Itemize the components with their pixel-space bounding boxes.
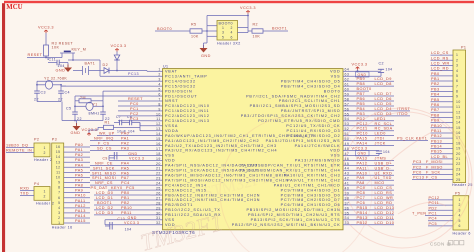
svg-text:15: 15	[156, 137, 161, 141]
svg-text:PC13: PC13	[128, 72, 139, 76]
svg-text:U1: U1	[163, 65, 169, 69]
svg-text:PB6: PB6	[357, 97, 366, 101]
capacitor C4	[58, 90, 64, 92]
svg-text:PC2: PC2	[130, 112, 139, 116]
net wire row 20	[90, 164, 151, 166]
svg-text:PB2: PB2	[121, 201, 130, 205]
svg-text:PA13: PA13	[357, 156, 368, 160]
svg-text:62: 62	[345, 78, 350, 82]
net wire row 24	[90, 184, 151, 186]
svg-text:PA8: PA8	[75, 184, 83, 188]
svg-text:10K: 10K	[52, 46, 60, 50]
svg-text:PA6: PA6	[75, 173, 83, 177]
svg-text:C2: C2	[379, 62, 385, 66]
svg-text:14: 14	[156, 132, 161, 136]
svg-text:/TRST: /TRST	[397, 107, 410, 111]
net wire pin 38	[355, 199, 394, 201]
net label 18B20_DQ	[6, 147, 34, 149]
svg-text:R5: R5	[191, 23, 197, 27]
svg-text:PB4/JNTRST/SPI3_MISO: PB4/JNTRST/SPI3_MISO	[281, 109, 341, 113]
svg-text:VSSA: VSSA	[165, 124, 178, 128]
svg-text:BAT1: BAT1	[85, 62, 96, 66]
svg-text:SPI1_SCK: SPI1_SCK	[93, 166, 115, 170]
net wire pin 61	[355, 85, 394, 87]
svg-text:53: 53	[345, 122, 350, 126]
net wire pin 33	[355, 224, 394, 226]
svg-text:PD2: PD2	[429, 206, 438, 210]
svg-text:22: 22	[58, 98, 63, 102]
net wire pin 42	[355, 179, 394, 181]
svg-text:22: 22	[456, 162, 461, 166]
svg-text:3: 3	[222, 31, 224, 35]
svg-text:PA12: PA12	[75, 204, 86, 208]
svg-text:19: 19	[456, 147, 461, 151]
svg-text:SPI1_MISO: SPI1_MISO	[92, 171, 116, 175]
svg-text:LCD_D9: LCD_D9	[375, 77, 392, 81]
svg-text:PC1/ADC123_IN11: PC1/ADC123_IN11	[165, 109, 209, 113]
svg-text:PA6: PA6	[121, 171, 129, 175]
svg-text:4: 4	[158, 83, 160, 87]
svg-text:PA3: PA3	[121, 147, 129, 151]
svg-text:GND: GND	[128, 152, 137, 156]
svg-text:VBAT: VBAT	[165, 70, 178, 74]
svg-text:PA2: PA2	[75, 153, 83, 157]
svg-text:PB15/SPI2_MOSI/I2S2_SD/TIM1_CH: PB15/SPI2_MOSI/I2S2_SD/TIM1_CH3N	[246, 208, 340, 212]
capacitor C3	[34, 90, 40, 92]
net label GND (pin 47)	[356, 150, 370, 155]
svg-text:PB7/I2C1_SDA/FSMC_NADV/TIM4_CH: PB7/I2C1_SDA/FSMC_NADV/TIM4_CH2	[246, 94, 340, 98]
svg-text:NRF_CS: NRF_CS	[95, 181, 113, 185]
svg-text:NRF_IRQ: NRF_IRQ	[94, 137, 114, 141]
net wire pin 60	[355, 90, 369, 92]
capacitor C9 (decoupling rows 18-19)	[108, 155, 110, 160]
svg-text:PA5: PA5	[121, 166, 129, 170]
svg-text:6: 6	[459, 224, 461, 228]
header P5	[453, 196, 469, 230]
svg-text:24: 24	[156, 182, 161, 186]
svg-text:10: 10	[56, 176, 61, 180]
net label REMOTE_IN	[6, 152, 34, 154]
svg-text:4: 4	[231, 31, 233, 35]
svg-text:14: 14	[456, 121, 461, 125]
sheet border left	[2, 3, 5, 252]
net wire row 28	[94, 204, 151, 206]
svg-text:Header 16: Header 16	[52, 226, 73, 230]
svg-text:1: 1	[222, 26, 224, 30]
svg-text:PA15: PA15	[75, 219, 86, 223]
svg-text:PB11: PB11	[431, 129, 442, 133]
svg-text:C9: C9	[103, 157, 108, 161]
svg-text:PB2/BOOT1: PB2/BOOT1	[165, 203, 193, 207]
net wire pin 51	[355, 135, 394, 137]
svg-text:6: 6	[456, 79, 458, 83]
net wire pin 62	[355, 80, 394, 82]
svg-text:GND: GND	[128, 216, 137, 220]
svg-text:6: 6	[231, 36, 233, 40]
svg-text:BOOT0: BOOT0	[219, 21, 233, 25]
svg-text:PB7: PB7	[431, 108, 440, 112]
svg-text:P5: P5	[455, 192, 460, 196]
svg-text:PB1: PB1	[431, 77, 440, 81]
svg-text:PB15: PB15	[431, 150, 442, 154]
svg-text:PA3: PA3	[75, 158, 83, 162]
svg-text:LCD_RD: LCD_RD	[431, 67, 449, 71]
svg-text:6: 6	[58, 196, 60, 200]
ground (reset)	[67, 63, 69, 68]
svg-text:PC5/ADC12_IN15: PC5/ADC12_IN15	[165, 188, 207, 192]
net label RXD	[20, 190, 34, 192]
svg-text:2: 2	[58, 216, 60, 220]
svg-text:PA1: PA1	[121, 137, 129, 141]
svg-text:PB4: PB4	[431, 93, 440, 97]
svg-text:20: 20	[456, 152, 461, 156]
net wire F_MOSI	[412, 163, 453, 165]
svg-text:PC7: PC7	[357, 196, 366, 200]
svg-text:36: 36	[345, 206, 350, 210]
svg-text:LCD_D5: LCD_D5	[375, 102, 392, 106]
svg-text:VCC3.3: VCC3.3	[129, 157, 144, 161]
svg-text:LCD_D11: LCD_D11	[375, 216, 395, 220]
svg-text:25: 25	[156, 187, 161, 191]
svg-text:29: 29	[156, 206, 161, 210]
wire to PC15 pin 4	[61, 85, 66, 87]
svg-text:PB12/SPI2_NSS/I2S2_WS/TIM1_BKI: PB12/SPI2_NSS/I2S2_WS/TIM1_BKIN/U3_CK	[232, 223, 341, 227]
svg-text:PC3: PC3	[413, 160, 422, 164]
svg-text:9: 9	[456, 95, 458, 99]
net wire pin 46	[355, 159, 394, 161]
svg-text:PB9: PB9	[357, 77, 366, 81]
net wire pin 52	[355, 130, 394, 132]
svg-text:PC11/U4_RX/SDIO_D3: PC11/U4_RX/SDIO_D3	[287, 129, 341, 133]
svg-text:42: 42	[345, 177, 350, 181]
header P4	[34, 187, 50, 201]
svg-text:P1: P1	[461, 46, 466, 50]
svg-text:1: 1	[44, 189, 46, 193]
net label PC0	[118, 105, 151, 107]
svg-text:C4: C4	[65, 91, 71, 95]
svg-text:PC4: PC4	[429, 217, 438, 221]
svg-text:PD1/OSCOUT: PD1/OSCOUT	[165, 94, 197, 98]
svg-text:49: 49	[345, 142, 350, 146]
net wire pin 35	[355, 214, 394, 216]
net wire row 25	[108, 189, 151, 191]
svg-text:104: 104	[58, 64, 65, 68]
svg-text:58: 58	[345, 97, 350, 101]
svg-text:1: 1	[44, 146, 46, 150]
svg-text:PD0/OSCIN: PD0/OSCIN	[165, 89, 193, 93]
svg-text:16: 16	[56, 145, 61, 149]
svg-text:SPI1_MOSI: SPI1_MOSI	[92, 176, 116, 180]
watermark circle	[332, 108, 472, 248]
svg-text:104: 104	[125, 227, 132, 231]
svg-text:C11: C11	[49, 58, 57, 62]
net label PC3	[118, 120, 151, 122]
svg-text:PC1: PC1	[130, 107, 139, 111]
svg-text:PC5: PC5	[429, 222, 438, 226]
svg-text:Header 6: Header 6	[453, 232, 471, 236]
mcu U1 left pin names	[165, 70, 315, 227]
net label BOOT0 (top)	[155, 30, 190, 32]
svg-text:64: 64	[345, 68, 350, 72]
svg-text:1: 1	[459, 198, 461, 202]
svg-text:KEY_M: KEY_M	[72, 48, 87, 52]
svg-text:C5: C5	[66, 107, 72, 111]
svg-text:30: 30	[156, 211, 161, 215]
svg-text:PB14: PB14	[357, 211, 368, 215]
net wire row 27	[94, 199, 151, 201]
svg-text:LCD_RD: LCD_RD	[375, 201, 393, 205]
svg-text:12: 12	[156, 122, 161, 126]
net wire pin 54	[355, 120, 394, 122]
wire	[357, 70, 359, 72]
svg-text:LCD_CS: LCD_CS	[375, 186, 393, 190]
svg-text:NRST: NRST	[165, 99, 178, 103]
net wire row 29	[94, 209, 151, 211]
wire to VBAT pin 1	[117, 70, 147, 72]
svg-text:R2: R2	[253, 23, 259, 27]
svg-text:Header 25: Header 25	[452, 183, 473, 187]
svg-text:PA7: PA7	[121, 176, 129, 180]
svg-text:T_PEN: T_PEN	[412, 212, 427, 216]
capacitor C6	[100, 111, 106, 113]
svg-text:17: 17	[156, 147, 161, 151]
svg-text:23: 23	[456, 167, 461, 171]
svg-text:4: 4	[58, 206, 60, 210]
svg-text:F_CS: F_CS	[426, 176, 438, 180]
svg-text:63: 63	[345, 73, 350, 77]
svg-text:LCD_D13: LCD_D13	[375, 206, 395, 210]
net wire pin 43	[355, 174, 394, 176]
svg-text:PA1: PA1	[75, 148, 83, 152]
svg-text:Header 3X2: Header 3X2	[217, 41, 241, 45]
svg-text:KEY0: KEY0	[111, 186, 123, 190]
svg-text:8: 8	[58, 186, 60, 190]
svg-text:JTDI: JTDI	[375, 137, 385, 141]
svg-text:10K: 10K	[191, 35, 199, 39]
svg-text:60: 60	[345, 88, 350, 92]
svg-text:F_MOSI: F_MOSI	[426, 160, 443, 164]
wire to VSSA pin 12	[140, 125, 151, 127]
svg-text:VCC3.3: VCC3.3	[352, 63, 368, 67]
wire to PD1 pin 6	[103, 90, 151, 92]
svg-text:PA10: PA10	[357, 171, 368, 175]
header P1	[453, 50, 466, 183]
net wire pin 37	[355, 204, 394, 206]
mcu U1 body	[163, 69, 343, 230]
svg-text:LCD_BL: LCD_BL	[431, 155, 448, 159]
svg-text:VDDA: VDDA	[165, 129, 179, 133]
svg-text:VSS: VSS	[165, 154, 175, 158]
svg-text:10K: 10K	[253, 35, 261, 39]
svg-text:LCD_CS: LCD_CS	[431, 51, 449, 55]
svg-text:5: 5	[222, 36, 224, 40]
svg-text:JTMS: JTMS	[375, 156, 387, 160]
svg-text:PB5/I2C1_SMBA/SPI3_MOSI/I2S3_S: PB5/I2C1_SMBA/SPI3_MOSI/I2S3_SD	[250, 104, 341, 108]
wire	[114, 122, 120, 124]
svg-text:PC1: PC1	[429, 212, 438, 216]
svg-text:PC3: PC3	[130, 117, 139, 121]
net label BOOT1 (top)	[263, 30, 288, 32]
net wire pin 50	[355, 140, 428, 142]
svg-text:22: 22	[156, 172, 161, 176]
svg-text:RXD: RXD	[20, 186, 29, 190]
svg-text:2: 2	[44, 151, 46, 155]
net wire pin 56	[355, 110, 410, 112]
svg-text:PC2/ADC123_IN12: PC2/ADC123_IN12	[165, 114, 210, 118]
svg-text:PA9: PA9	[357, 176, 365, 180]
svg-text:14: 14	[56, 155, 61, 159]
svg-text:PB7: PB7	[357, 92, 366, 96]
svg-text:PC12: PC12	[429, 196, 440, 200]
net wire F_CS	[412, 179, 453, 181]
svg-text:U1_TXD: U1_TXD	[375, 176, 392, 180]
capacitor C9	[378, 150, 380, 153]
net wire pin 58	[355, 100, 394, 102]
svg-text:4: 4	[456, 69, 458, 73]
svg-text:PA4: PA4	[121, 161, 129, 165]
svg-text:LCD_D0: LCD_D0	[96, 191, 113, 195]
svg-text:PA15: PA15	[357, 137, 368, 141]
svg-text:2: 2	[44, 194, 46, 198]
svg-text:15: 15	[56, 150, 61, 154]
svg-text:PA5: PA5	[75, 168, 83, 172]
svg-text:8MHz: 8MHz	[89, 111, 100, 115]
svg-text:LCD_D12: LCD_D12	[375, 211, 395, 215]
net label PC13	[100, 75, 151, 77]
svg-text:PC13: PC13	[413, 176, 424, 180]
svg-text:LCD_D7: LCD_D7	[375, 92, 392, 96]
net wire pin 59	[355, 95, 394, 97]
svg-text:RC_SDA: RC_SDA	[375, 127, 393, 131]
wire	[238, 27, 249, 29]
net wire pin 55	[355, 115, 410, 117]
svg-text:5: 5	[58, 201, 60, 205]
svg-text:PB14: PB14	[431, 145, 442, 149]
svg-text:PB13/SPI2_SCK/TIM1_CH1N/U3_CTS: PB13/SPI2_SCK/TIM1_CH1N/U3_CTS	[251, 218, 341, 222]
svg-text:VSS: VSS	[331, 74, 341, 78]
svg-text:F_SCK: F_SCK	[426, 170, 441, 174]
mcu U1 right pin stubs and numbers	[343, 68, 355, 225]
svg-text:18: 18	[156, 152, 161, 156]
svg-text:PA0: PA0	[121, 132, 129, 136]
svg-text:2: 2	[231, 26, 233, 30]
net label RESET (NRST pin 7)	[118, 100, 151, 102]
svg-text:PA0: PA0	[75, 143, 83, 147]
svg-text:3: 3	[456, 64, 458, 68]
svg-text:104: 104	[383, 150, 390, 154]
svg-text:PA10: PA10	[75, 194, 86, 198]
svg-text:PC0: PC0	[413, 170, 422, 174]
net wire row 15	[90, 140, 151, 142]
svg-text:PA14/JTCK/SWCLK: PA14/JTCK/SWCLK	[295, 144, 341, 148]
net wire row 16	[90, 145, 151, 147]
wire	[45, 33, 47, 45]
svg-text:Header 2: Header 2	[36, 202, 54, 206]
header P5 wires and labels	[425, 196, 453, 226]
svg-text:PC15/OSC32: PC15/OSC32	[165, 84, 196, 88]
svg-text:13: 13	[156, 127, 161, 131]
svg-text:3: 3	[58, 211, 60, 215]
svg-text:18B20_DQ: 18B20_DQ	[6, 143, 28, 147]
svg-text:24: 24	[456, 173, 461, 177]
svg-text:PA2: PA2	[121, 142, 129, 146]
svg-text:PB5: PB5	[357, 102, 366, 106]
svg-text:22: 22	[34, 98, 39, 102]
svg-text:PC3/ADC123_IN13: PC3/ADC123_IN13	[165, 119, 210, 123]
wire to PC14 pin 3	[37, 80, 151, 82]
svg-text:PC0: PC0	[130, 102, 139, 106]
svg-text:PC12/U5_TX/SDIO_CK: PC12/U5_TX/SDIO_CK	[286, 124, 340, 128]
svg-text:13: 13	[456, 115, 461, 119]
resistor R3	[44, 45, 49, 56]
svg-text:TXD: TXD	[20, 191, 29, 195]
svg-text:GND: GND	[71, 131, 81, 135]
ground (crystal)	[73, 126, 81, 131]
svg-text:PB0: PB0	[431, 72, 440, 76]
svg-text:16: 16	[156, 142, 161, 146]
svg-text:BOOT1: BOOT1	[272, 27, 287, 31]
svg-text:55: 55	[345, 112, 350, 116]
net label PC2	[118, 115, 151, 117]
svg-text:PB0: PB0	[121, 191, 130, 195]
ground (boot)	[200, 48, 208, 53]
wire	[45, 56, 47, 58]
svg-text:9: 9	[58, 181, 60, 185]
svg-text:PA13: PA13	[75, 209, 86, 213]
svg-text:PB6: PB6	[431, 103, 440, 107]
svg-text:11: 11	[56, 170, 60, 174]
svg-text:23: 23	[156, 177, 161, 181]
svg-text:52: 52	[345, 127, 350, 131]
svg-text:35: 35	[345, 211, 350, 215]
svg-text:PB1: PB1	[121, 196, 130, 200]
svg-text:PS_DAT: PS_DAT	[91, 186, 108, 190]
svg-text:RC_SCL: RC_SCL	[375, 122, 393, 126]
net wire row 23	[90, 179, 151, 181]
svg-text:PC0/ADC123_IN10: PC0/ADC123_IN10	[165, 104, 210, 108]
svg-text:PB10: PB10	[431, 124, 442, 128]
svg-text:56: 56	[345, 107, 350, 111]
svg-text:F_CS: F_CS	[98, 142, 110, 146]
svg-text:VDD: VDD	[330, 70, 340, 74]
svg-text:10: 10	[156, 112, 161, 116]
svg-text:11: 11	[456, 105, 460, 109]
svg-text:7: 7	[58, 191, 60, 195]
wire to PD0 pin 5	[75, 95, 151, 97]
svg-text:GND: GND	[56, 69, 66, 73]
svg-text:Header 2: Header 2	[34, 158, 52, 162]
svg-text:10: 10	[456, 100, 461, 104]
svg-text:32: 32	[156, 221, 161, 225]
svg-text:R1: R1	[105, 120, 111, 124]
svg-text:3: 3	[158, 78, 160, 82]
svg-text:MCU: MCU	[6, 4, 22, 11]
net wire pin 45	[355, 164, 394, 166]
mcu U1 left pin stubs and numbers	[151, 68, 163, 225]
svg-text:44: 44	[345, 167, 350, 171]
svg-text:5: 5	[158, 88, 160, 92]
svg-text:PA4: PA4	[75, 163, 83, 167]
svg-text:7: 7	[158, 97, 160, 101]
svg-text:12: 12	[56, 165, 61, 169]
net wire pin 36	[355, 209, 394, 211]
svg-text:PB5: PB5	[431, 98, 440, 102]
svg-text:LCD_D10: LCD_D10	[375, 221, 395, 225]
svg-text:2: 2	[158, 73, 160, 77]
svg-text:41: 41	[345, 182, 350, 186]
svg-text:15: 15	[456, 126, 461, 130]
svg-text:PC9/TIM8_CH4/SDIO_D1: PC9/TIM8_CH4/SDIO_D1	[281, 188, 341, 192]
